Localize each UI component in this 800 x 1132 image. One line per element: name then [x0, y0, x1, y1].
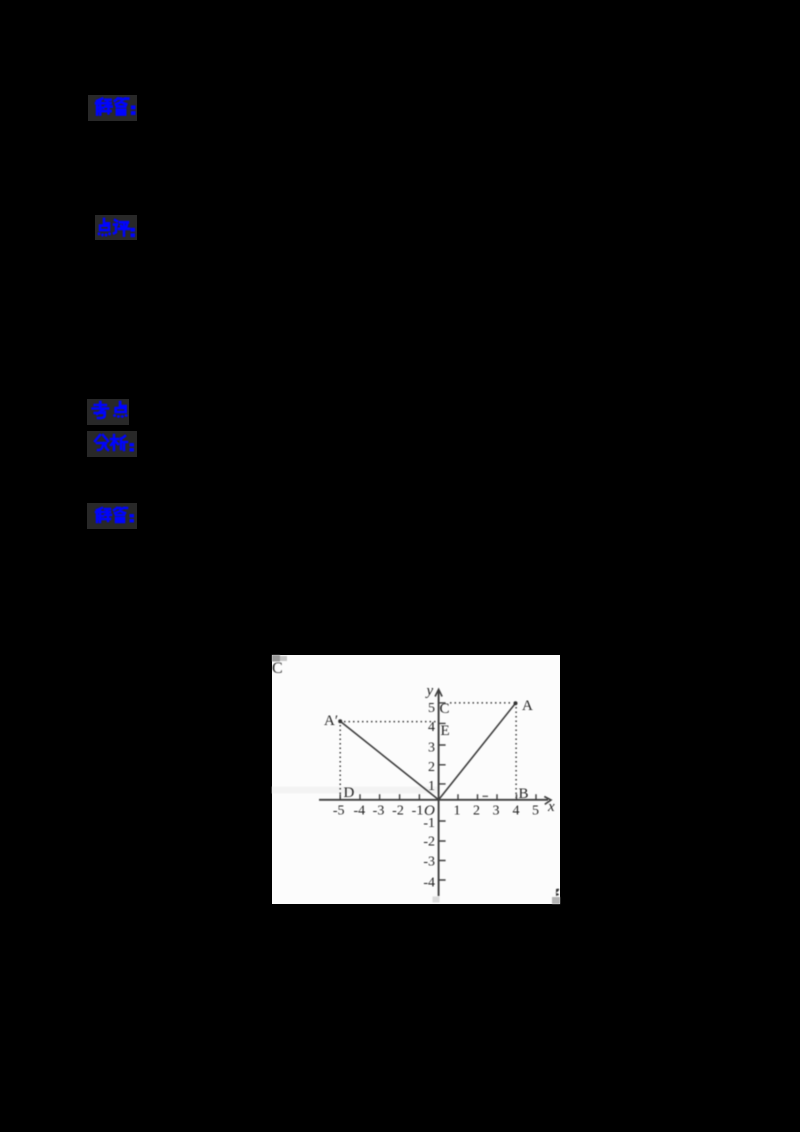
- segment O to A': [340, 721, 438, 800]
- top-left gray smudge: [272, 655, 280, 662]
- label 4 "分析:" blue highlighted: [87, 431, 137, 457]
- svg-text:D: D: [344, 785, 355, 801]
- svg-text:-2: -2: [392, 804, 404, 819]
- figure: white box with coordinate plane: [272, 655, 560, 904]
- svg-text:2: 2: [473, 804, 480, 819]
- svg-text:5: 5: [532, 804, 539, 819]
- dotted A' to D: [339, 725, 341, 798]
- svg-text:E: E: [441, 723, 450, 739]
- svg-text:5: 5: [428, 701, 435, 716]
- svg-text:4: 4: [513, 804, 520, 819]
- svg-text:1: 1: [428, 779, 435, 794]
- svg-text:y: y: [425, 683, 434, 699]
- svg-text:-1: -1: [412, 804, 424, 819]
- svg-text:1: 1: [454, 804, 461, 819]
- svg-text:O: O: [424, 803, 435, 819]
- dotted A to B: [515, 707, 517, 798]
- x ticks: [340, 794, 536, 800]
- svg-text:-4: -4: [353, 804, 365, 819]
- svg-text:-2: -2: [423, 835, 435, 850]
- svg-text:C: C: [440, 701, 450, 717]
- svg-text:-3: -3: [373, 804, 385, 819]
- label 5 "解答:" blue highlighted: [87, 503, 137, 529]
- svg-text:x: x: [547, 799, 555, 815]
- svg-text:-4: -4: [423, 876, 435, 891]
- x-axis: [319, 799, 548, 801]
- segment O to A: [439, 703, 516, 800]
- label 3 "考点" blue highlighted: [87, 399, 129, 425]
- svg-text:B: B: [519, 786, 529, 802]
- dotted C to A: [450, 702, 513, 704]
- dotted A' to E: [344, 721, 437, 723]
- bottom-right dark mark: [555, 889, 559, 896]
- bottom-right gray smudge: [552, 897, 560, 904]
- svg-text:C: C: [272, 660, 283, 677]
- svg-text:2: 2: [428, 760, 435, 775]
- label 1 "解答:" blue highlighted: [88, 95, 137, 121]
- label 2 "点评:" blue highlighted: [95, 215, 137, 240]
- stray scan fleck on x-axis: [483, 795, 489, 797]
- faint scan band: [272, 787, 438, 794]
- point dots: [514, 701, 518, 705]
- svg-text:3: 3: [428, 740, 435, 755]
- y-axis: [438, 690, 440, 896]
- svg-text:A′: A′: [324, 713, 338, 729]
- svg-text:4: 4: [428, 720, 435, 735]
- svg-text:-5: -5: [333, 804, 345, 819]
- svg-text:-3: -3: [423, 855, 435, 870]
- gray smudge at y-axis bottom: [433, 897, 440, 903]
- svg-text:A: A: [522, 698, 533, 714]
- svg-text:3: 3: [493, 804, 500, 819]
- y ticks: [439, 703, 446, 880]
